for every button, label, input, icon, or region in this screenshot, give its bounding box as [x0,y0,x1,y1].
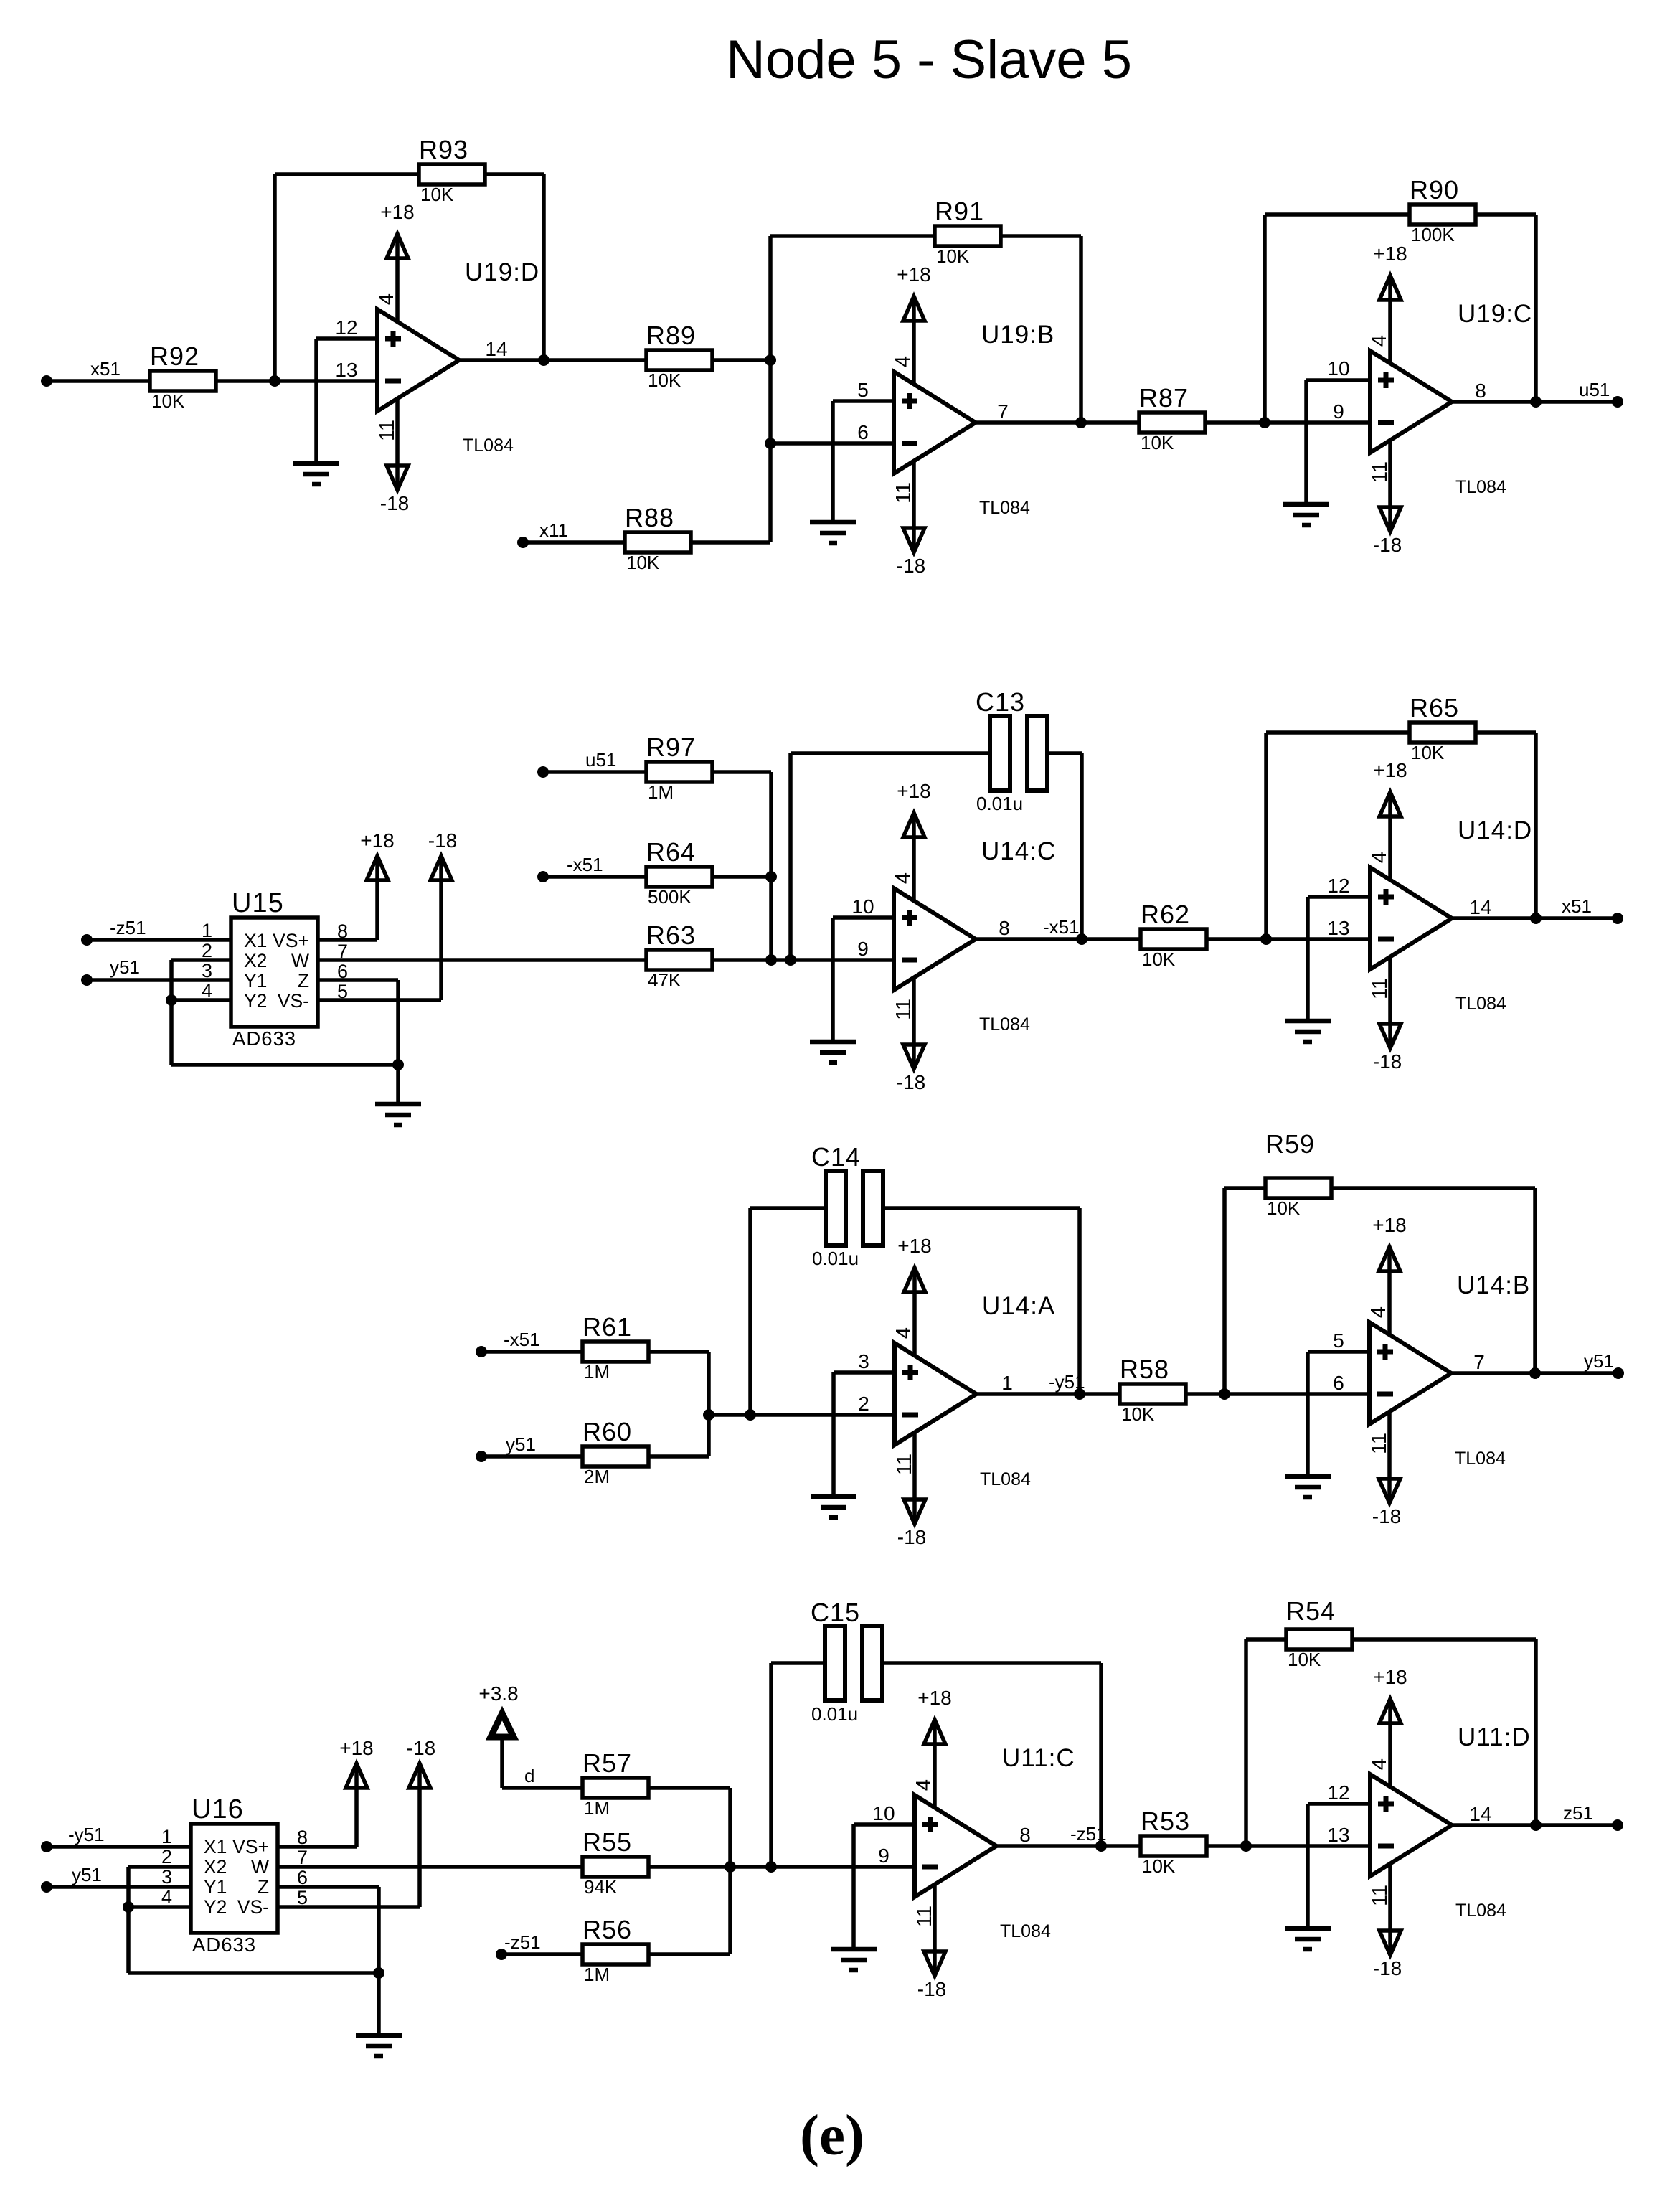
resistor R59 feedback loop wires [1224,1188,1265,1394]
capacitor C15 feedback loop wires [771,1663,825,1867]
resistor R91 (10K) [935,197,1001,267]
svg-text:R87: R87 [1139,383,1189,413]
U14:D non-inverting input stub [1308,897,1370,1021]
multiplier U16 (AD633) [161,1794,308,1956]
capacitor C14 (0.01u) [811,1142,883,1269]
svg-text:14: 14 [485,338,507,360]
node summing junction R61/R60 [703,1409,714,1421]
svg-text:-18: -18 [1372,1505,1401,1527]
U14:B -V supply pin 11 (-18) [1368,1412,1401,1527]
svg-text:11: 11 [892,482,915,504]
svg-text:47K: 47K [648,969,681,991]
resistor R62 (10K) [1141,900,1207,970]
node -z51 input terminal [496,1931,541,1960]
svg-text:U19:D: U19:D [465,258,539,286]
resistor R90 feedback loop wires [1265,215,1410,423]
svg-text:(e): (e) [800,2103,864,2167]
ground [810,522,856,543]
node -x51 input terminal [537,854,603,882]
svg-text:R88: R88 [625,503,674,532]
wire y51 to U15 pin 3 Y1 [87,978,231,982]
svg-text:VS-: VS- [237,1896,269,1918]
wire summing node to U19:B pin 6 [770,441,894,446]
svg-text:4: 4 [375,293,398,305]
svg-text:U15: U15 [232,888,284,918]
svg-text:TL084: TL084 [1455,1449,1506,1469]
op-amp U14:D (TL084) [1370,816,1532,1014]
svg-text:VS+: VS+ [273,930,309,951]
svg-text:2M: 2M [584,1466,610,1487]
U11:D +V supply pin 4 (+18) [1368,1666,1407,1786]
svg-text:4: 4 [161,1886,172,1908]
svg-text:6: 6 [1333,1372,1344,1394]
ground [810,1042,856,1063]
svg-text:10K: 10K [1142,1855,1176,1877]
svg-text:10K: 10K [936,245,970,267]
svg-text:+18: +18 [897,263,931,286]
wire R64 to summing vertical [711,875,771,879]
U11:C -V supply pin 11 (-18) [913,1885,946,2000]
U19:B non-inverting input stub [833,401,894,522]
ground [831,1949,877,1970]
op-amp U14:A (TL084) [895,1292,1055,1489]
svg-text:2: 2 [161,1846,172,1868]
U19:C -V supply pin 11 (-18) [1369,441,1402,556]
op-amp U14:C (TL084) [894,837,1056,1035]
U19:D -V supply pin 11 (-18) [376,399,409,514]
svg-text:13: 13 [335,359,357,381]
capacitor C15 (0.01u) [811,1598,882,1725]
node junction R92/R93/U19:D inverting input [269,375,280,387]
wire x51 to R92 [47,379,150,383]
node -x51 input terminal [476,1329,540,1357]
svg-text:12: 12 [1327,875,1349,897]
U15 -18 supply pin 5 VS- [318,829,457,1000]
wire R58 to U14:B pin 6 [1184,1392,1369,1396]
svg-text:+18: +18 [897,780,931,802]
U14:A -V supply pin 11 (-18) [893,1433,926,1548]
svg-text:U11:D: U11:D [1458,1723,1531,1751]
node u51 output terminal [1579,379,1623,408]
node junction U14:D output / R65 feedback [1530,913,1542,924]
capacitor C13 feedback loop wires [791,753,990,960]
svg-text:R64: R64 [646,837,696,867]
node junction U14:B output / R59 feedback [1529,1367,1541,1379]
svg-text:10: 10 [851,895,874,918]
svg-text:12: 12 [335,316,357,339]
U11:C non-inverting input stub [854,1824,915,1949]
resistor R89 (10K) [646,321,712,391]
power +3.8 arrow for d input [478,1682,518,1788]
svg-text:1M: 1M [584,1964,610,1985]
svg-text:R63: R63 [646,920,696,950]
wire R93 to output vertical [483,174,544,360]
wire R53 to U11:D pin 13 [1205,1844,1370,1848]
wire C15 to U11:C output [882,1663,1101,1846]
resistor R93 (10K) [419,135,485,205]
wire U14:B output pin 7 to y51 terminal [1451,1371,1618,1375]
op-amp U19:D (TL084) [377,258,539,456]
node z51 output terminal [1563,1802,1623,1831]
row 3: integrator U14:A / inverter U14:B producing y51 [476,1129,1624,1548]
U19:C non-inverting input stub [1306,380,1370,504]
svg-text:4: 4 [1367,1306,1390,1318]
U15 +18 supply pin 8 VS+ [318,829,395,940]
wire -x51 to R61 [481,1350,582,1354]
op-amp U19:C (TL084) [1370,300,1532,497]
resistor R56 (1M) [582,1915,648,1985]
svg-text:C14: C14 [811,1142,861,1172]
U11:D -V supply pin 11 (-18) [1369,1864,1402,1979]
svg-text:R56: R56 [582,1915,632,1944]
ground [375,1104,421,1125]
svg-text:0.01u: 0.01u [811,1703,858,1725]
svg-text:R97: R97 [646,733,696,762]
U19:C pin labels 10/9/8 [1327,357,1486,423]
svg-text:-x51: -x51 [1043,916,1080,938]
wire R59 to U14:B output [1330,1188,1535,1373]
resistor R92 (10K) [150,342,216,412]
U14:D -V supply pin 11 (-18) [1369,957,1402,1073]
svg-text:C13: C13 [976,687,1025,717]
resistor R93 feedback loop wires [275,174,419,381]
wire R62 to U14:D pin 13 [1205,937,1370,941]
ground [1285,1021,1331,1042]
svg-text:R53: R53 [1141,1807,1190,1836]
svg-text:4: 4 [1368,335,1391,347]
svg-text:-z51: -z51 [504,1931,541,1953]
svg-text:11: 11 [1369,461,1392,483]
node y51 input terminal [41,1864,102,1893]
svg-text:TL084: TL084 [1455,1901,1506,1921]
op-amp U11:C (TL084) [915,1744,1075,1941]
svg-text:TL084: TL084 [1455,994,1506,1014]
wire x11 to R88 [523,540,625,545]
svg-text:11: 11 [1368,1433,1391,1454]
node junction X2/Y2 bus [166,994,177,1006]
svg-text:X1: X1 [244,930,267,951]
wire U14:C output pin 8 to R62 [976,937,1141,941]
svg-text:R89: R89 [646,321,696,350]
resistor R57 (1M) [582,1748,648,1819]
U14:A pin labels 3/2/1 [858,1350,1013,1415]
svg-text:u51: u51 [1579,379,1610,400]
resistor R58 (10K) [1120,1355,1186,1425]
wire -z51 to U15 pin 1 X1 [87,938,231,942]
svg-text:10K: 10K [1267,1197,1301,1219]
svg-text:U14:C: U14:C [981,837,1056,865]
node -y51 input terminal [41,1824,105,1852]
node junction C15 feedback [765,1861,777,1873]
resistor R63 (47K) [646,920,712,991]
node x51 input terminal [41,358,121,387]
svg-text:U19:B: U19:B [981,321,1054,349]
resistor R54 (10K) [1286,1596,1352,1670]
ground [1283,504,1329,525]
row 1: inverting buffer chain x51 -> u51 [41,135,1623,577]
svg-text:94K: 94K [584,1876,618,1898]
svg-text:U19:C: U19:C [1458,300,1532,328]
ground [1285,1477,1331,1497]
svg-text:Node 5 - Slave 5: Node 5 - Slave 5 [726,29,1132,90]
svg-text:Y1: Y1 [244,970,267,992]
U14:D pin labels 12/13/14 [1327,875,1491,939]
wire u51 to R97 [543,770,646,774]
svg-text:Z: Z [298,970,309,992]
wire U16 W output pin 7 to R55 [278,1865,582,1869]
svg-text:3: 3 [161,1866,172,1888]
svg-text:R59: R59 [1265,1129,1315,1159]
U14:B +V supply pin 4 (+18) [1367,1214,1407,1334]
ground [293,463,339,484]
node y51 input terminal [476,1433,536,1462]
svg-text:9: 9 [878,1845,889,1867]
wire R63 to summing node [711,958,894,962]
capacitor C14 feedback loop wires [750,1208,826,1415]
node junction Z/ground bus [392,1059,404,1070]
resistor R53 (10K) [1141,1807,1207,1877]
wire U19:C output pin 8 to u51 terminal [1452,400,1618,404]
svg-text:10K: 10K [151,390,185,412]
resistor R65 feedback loop wires [1266,733,1410,939]
svg-text:11: 11 [1369,978,1392,999]
wire y51 to R60 [481,1454,582,1459]
wire U15 pin 6 Z to ground bus [318,980,398,1065]
svg-text:1M: 1M [584,1361,610,1383]
svg-text:13: 13 [1327,1824,1349,1846]
op-amp U14:B (TL084) [1369,1271,1530,1469]
svg-text:4: 4 [892,872,915,884]
svg-text:-18: -18 [407,1737,435,1759]
wire U14:D output pin 14 to x51 terminal [1452,916,1618,920]
svg-text:10K: 10K [1142,948,1176,970]
resistor R54 feedback loop wires [1246,1639,1286,1846]
resistor R90 (100K) [1410,175,1476,245]
svg-text:11: 11 [893,1454,916,1475]
node summing vertical for U19:B (R89/R88/R91) [765,236,776,542]
svg-text:R57: R57 [582,1748,632,1778]
svg-text:1M: 1M [648,781,674,803]
svg-text:u51: u51 [585,749,616,771]
svg-text:9: 9 [857,938,869,960]
multiplier U15 (AD633) [202,888,348,1050]
U14:C pin labels 10/9/8 [851,895,1009,960]
svg-text:AD633: AD633 [232,1027,296,1050]
op-amp U11:D (TL084) [1370,1723,1531,1921]
wire junction to ground [396,1065,400,1104]
wire U16 pin 4 Y2 to ground bus [128,1905,191,1909]
ground [1285,1928,1331,1949]
svg-text:+18: +18 [339,1737,374,1759]
wire U16 ground bus bottom [128,1971,379,1975]
capacitor C13 (0.01u) [976,687,1047,814]
svg-text:R58: R58 [1120,1355,1169,1384]
svg-text:VS+: VS+ [232,1836,269,1857]
node junction U11:D output / R54 feedback [1530,1819,1542,1831]
svg-text:-z51: -z51 [110,917,146,938]
U14:A non-inverting input stub [834,1372,895,1497]
wire R55 to summing node [647,1865,915,1869]
U19:D +V supply pin 4 (+18) [375,201,415,321]
svg-text:-18: -18 [1373,1957,1402,1979]
svg-text:Y2: Y2 [244,990,267,1012]
node junction R87 / R90 feedback [1259,417,1270,428]
node u51 input terminal [537,749,616,778]
svg-text:y51: y51 [110,956,140,978]
svg-text:4: 4 [1368,852,1391,863]
wire R88 to summing vertical [689,540,770,545]
node junction Z/ground bus [373,1967,384,1979]
wire U16 pin 2 X2 to ground bus [128,1867,191,1973]
svg-text:4: 4 [892,356,915,367]
svg-text:10K: 10K [1411,742,1445,763]
node junction R58 / R59 feedback [1219,1388,1230,1400]
wire U15 ground bus bottom [171,1063,398,1067]
svg-text:x51: x51 [1562,895,1592,917]
svg-text:11: 11 [892,999,915,1020]
svg-text:4: 4 [892,1327,915,1339]
svg-text:y51: y51 [72,1864,102,1885]
svg-text:W: W [291,950,309,971]
U14:C non-inverting input stub [833,918,894,1042]
svg-text:10K: 10K [1141,432,1174,453]
wire U15 pin 4 Y2 to ground bus [171,998,231,1002]
wire junction to ground [377,1973,381,2035]
svg-text:-18: -18 [380,492,409,514]
ground [356,2035,402,2056]
svg-text:U11:C: U11:C [1002,1744,1075,1772]
svg-text:10K: 10K [420,184,454,205]
U14:B pin labels 5/6/7 [1333,1329,1485,1394]
svg-text:+18: +18 [380,201,415,223]
resistor R87 (10K) [1139,383,1205,453]
svg-text:U14:A: U14:A [982,1292,1055,1320]
svg-text:-18: -18 [897,555,925,577]
row 4: multiplier U16 and integrator U11:C / inverter U11:D producing z51 [41,1596,1623,2056]
wire junction to U19:D pin 13 [275,379,377,383]
resistor R59 (10K) [1265,1129,1331,1219]
U14:B non-inverting input stub [1308,1352,1369,1477]
svg-text:z51: z51 [1563,1802,1593,1824]
node x51 output terminal [1562,895,1623,924]
svg-text:TL084: TL084 [463,435,514,456]
wire -x51 to R64 [543,875,646,879]
svg-text:+18: +18 [1373,1666,1407,1688]
U19:B pin labels 5/6/7 [857,379,1009,443]
svg-text:y51: y51 [1584,1350,1614,1372]
svg-text:-18: -18 [1373,1050,1402,1073]
svg-text:10K: 10K [648,369,681,391]
wire R57 to summing vertical [647,1788,730,1954]
svg-text:Y1: Y1 [204,1876,227,1898]
svg-text:10: 10 [1327,357,1349,380]
svg-text:+3.8: +3.8 [478,1682,518,1705]
svg-text:10: 10 [872,1802,895,1824]
resistor R91 feedback loop wires [770,234,935,238]
svg-text:6: 6 [857,421,869,443]
svg-text:11: 11 [376,420,399,441]
svg-text:Z: Z [258,1876,269,1898]
svg-text:8: 8 [1019,1824,1031,1846]
svg-text:14: 14 [1469,1803,1491,1825]
row 2: multiplier U15 and integrator U14:C / inverter U14:D [81,687,1623,1125]
svg-text:1M: 1M [584,1797,610,1819]
svg-text:R60: R60 [582,1417,632,1446]
wire R60 to summing vertical [647,1454,709,1459]
svg-text:W: W [251,1856,269,1878]
svg-text:R93: R93 [419,135,468,164]
svg-text:-18: -18 [897,1526,926,1548]
svg-text:TL084: TL084 [979,1014,1030,1035]
U16 +18 supply pin 8 VS+ [278,1737,374,1847]
svg-text:500K: 500K [648,886,692,908]
svg-text:R65: R65 [1410,693,1459,722]
node junction R62 / R65 feedback [1260,933,1272,945]
U14:C -V supply pin 11 (-18) [892,978,925,1093]
wire R56 to summing vertical [647,1952,730,1956]
svg-text:+18: +18 [360,829,395,852]
wire R91 to U19:B output [999,236,1081,423]
svg-text:U14:D: U14:D [1458,816,1532,844]
svg-text:+18: +18 [1372,1214,1407,1236]
svg-text:9: 9 [1333,400,1344,423]
resistor R55 (94K) [582,1827,648,1898]
svg-text:12: 12 [1327,1781,1349,1804]
U19:C +V supply pin 4 (+18) [1368,242,1407,363]
svg-text:11: 11 [913,1906,936,1927]
svg-text:1: 1 [1001,1372,1013,1394]
svg-text:y51: y51 [506,1433,536,1455]
U11:C pin labels 10/9/8 [872,1802,1030,1867]
svg-text:8: 8 [1475,380,1486,402]
svg-text:-18: -18 [428,829,457,852]
U19:D non-inverting input stub [316,339,377,463]
svg-text:-18: -18 [917,1978,946,2000]
node junction C14 feedback [745,1409,756,1421]
svg-text:R91: R91 [935,197,984,226]
svg-text:C15: C15 [811,1598,860,1627]
svg-text:R90: R90 [1410,175,1459,204]
svg-text:+18: +18 [897,1235,932,1257]
U19:B +V supply pin 4 (+18) [892,263,931,384]
wire R54 to U11:D output [1351,1639,1536,1825]
svg-text:14: 14 [1469,896,1491,918]
svg-text:Y2: Y2 [204,1896,227,1918]
svg-text:-18: -18 [897,1071,925,1093]
node junction R64/vertical [765,871,777,882]
node summing junction R97/R64/R63 [765,954,777,966]
svg-text:-y51: -y51 [1049,1371,1085,1393]
svg-text:R62: R62 [1141,900,1190,929]
resistor R61 (1M) [582,1312,648,1383]
node junction R53 / R54 feedback [1240,1840,1252,1852]
wire U14:A output pin 1 to R58 [976,1392,1120,1396]
svg-text:AD633: AD633 [192,1934,256,1956]
svg-text:R61: R61 [582,1312,632,1342]
U11:D pin labels 12/13/14 [1327,1781,1491,1846]
svg-text:10K: 10K [1288,1649,1321,1670]
node junction U14:A output / C14 feedback, labelled -y51 [1049,1371,1085,1400]
wire U11:C output pin 8 to R53 [996,1844,1141,1848]
U19:D pin labels 12/13/14 [335,316,507,381]
wire summing node to U14:A pin 2 [709,1413,895,1417]
node y51 output terminal [1584,1350,1624,1379]
wire C13 to U14:C output [1047,753,1082,939]
U19:B -V supply pin 11 (-18) [892,461,925,577]
wire R92 to summing junction [214,379,275,383]
svg-text:X2: X2 [204,1856,227,1878]
svg-text:-18: -18 [1373,534,1402,556]
